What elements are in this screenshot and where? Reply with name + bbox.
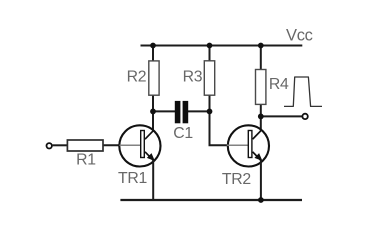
- svg-text:R2: R2: [127, 69, 147, 86]
- svg-text:R1: R1: [76, 152, 96, 169]
- svg-text:Vcc: Vcc: [286, 27, 313, 45]
- svg-text:R4: R4: [269, 76, 289, 93]
- svg-text:TR1: TR1: [118, 170, 147, 187]
- svg-text:C1: C1: [173, 125, 193, 142]
- svg-text:TR2: TR2: [222, 171, 251, 188]
- svg-text:R3: R3: [183, 69, 203, 86]
